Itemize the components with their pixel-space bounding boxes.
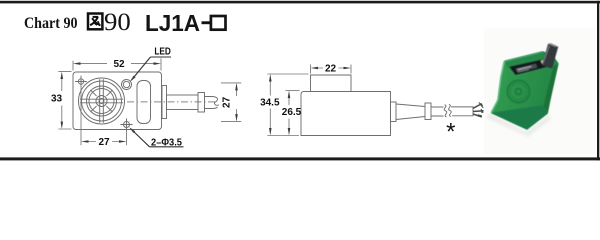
svg-text:52: 52 (113, 59, 125, 70)
ferrule (425, 103, 431, 120)
svg-text:Chart 90: Chart 90 (24, 13, 78, 32)
dimension 33 (58, 72, 71, 129)
bottom bevel (491, 105, 548, 129)
top border (0, 1, 600, 4)
mounting hole top-left (78, 79, 83, 84)
connector flange (162, 86, 167, 119)
photo background (484, 28, 596, 154)
shadow (487, 114, 551, 137)
svg-text:33: 33 (51, 94, 63, 105)
break squiggle (444, 105, 447, 117)
body rectangle (73, 72, 162, 130)
head block (311, 75, 352, 92)
title: CJK 图 glyph (drawn) (88, 14, 102, 30)
label plate (491, 44, 556, 113)
top face (505, 52, 559, 75)
cross double lines (80, 79, 123, 122)
title: empty box (211, 16, 226, 30)
svg-text:26.5: 26.5 (282, 107, 302, 118)
plate leds (541, 60, 545, 64)
sensing face circles (79, 78, 125, 124)
dimension 52 (73, 58, 161, 70)
center dash line (127, 101, 218, 103)
right border (597, 1, 599, 161)
svg-text:27: 27 (98, 137, 110, 148)
head/base seam (311, 91, 352, 93)
right side face (544, 64, 559, 115)
svg-text:LED: LED (154, 45, 171, 57)
flange (391, 102, 397, 122)
slot (137, 81, 151, 124)
connector shaft (167, 95, 199, 110)
cable stub (205, 97, 214, 109)
mounting hole bottom (124, 122, 130, 128)
top edge highlight (505, 52, 542, 61)
diagonal ticks (91, 90, 113, 112)
cable tip fork (213, 97, 219, 109)
dimension 26.5 (286, 91, 300, 129)
LED hole (122, 80, 132, 90)
svg-text:90: 90 (104, 9, 131, 36)
svg-text:*: * (446, 119, 455, 146)
dimension 22 (311, 65, 352, 74)
cable (547, 45, 553, 67)
dimension 34.5 (267, 74, 308, 136)
strain cone (396, 104, 425, 120)
cable run 2 (451, 107, 473, 116)
left edge highlight (491, 61, 504, 112)
base block (301, 92, 391, 136)
split wires (473, 104, 484, 117)
face circle (508, 81, 530, 103)
bottom border (0, 157, 600, 160)
svg-text:27: 27 (222, 96, 233, 108)
cable gland (198, 93, 205, 113)
dimension 27 right (rotated) (221, 83, 241, 122)
svg-text:22: 22 (325, 63, 337, 74)
dimension 27 bottom (81, 88, 127, 146)
body silhouette (491, 52, 558, 130)
svg-text:34.5: 34.5 (260, 98, 280, 109)
svg-text:LJ1A: LJ1A (145, 10, 200, 36)
cable run (431, 107, 444, 116)
